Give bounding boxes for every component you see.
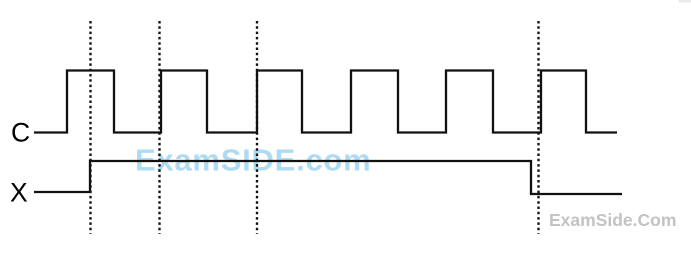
dashed line 3 (256, 21, 258, 234)
svg-text:X: X (10, 178, 28, 208)
corner artifact (679, 0, 691, 3)
dashed line 1 (89, 21, 91, 234)
svg-text:C: C (11, 118, 30, 148)
clock waveform C (34, 71, 617, 133)
dashed line 2 (158, 21, 160, 234)
signal waveform X (34, 161, 622, 194)
svg-text:ExamSide.Com: ExamSide.Com (549, 210, 676, 230)
dashed line 4 (537, 21, 539, 234)
